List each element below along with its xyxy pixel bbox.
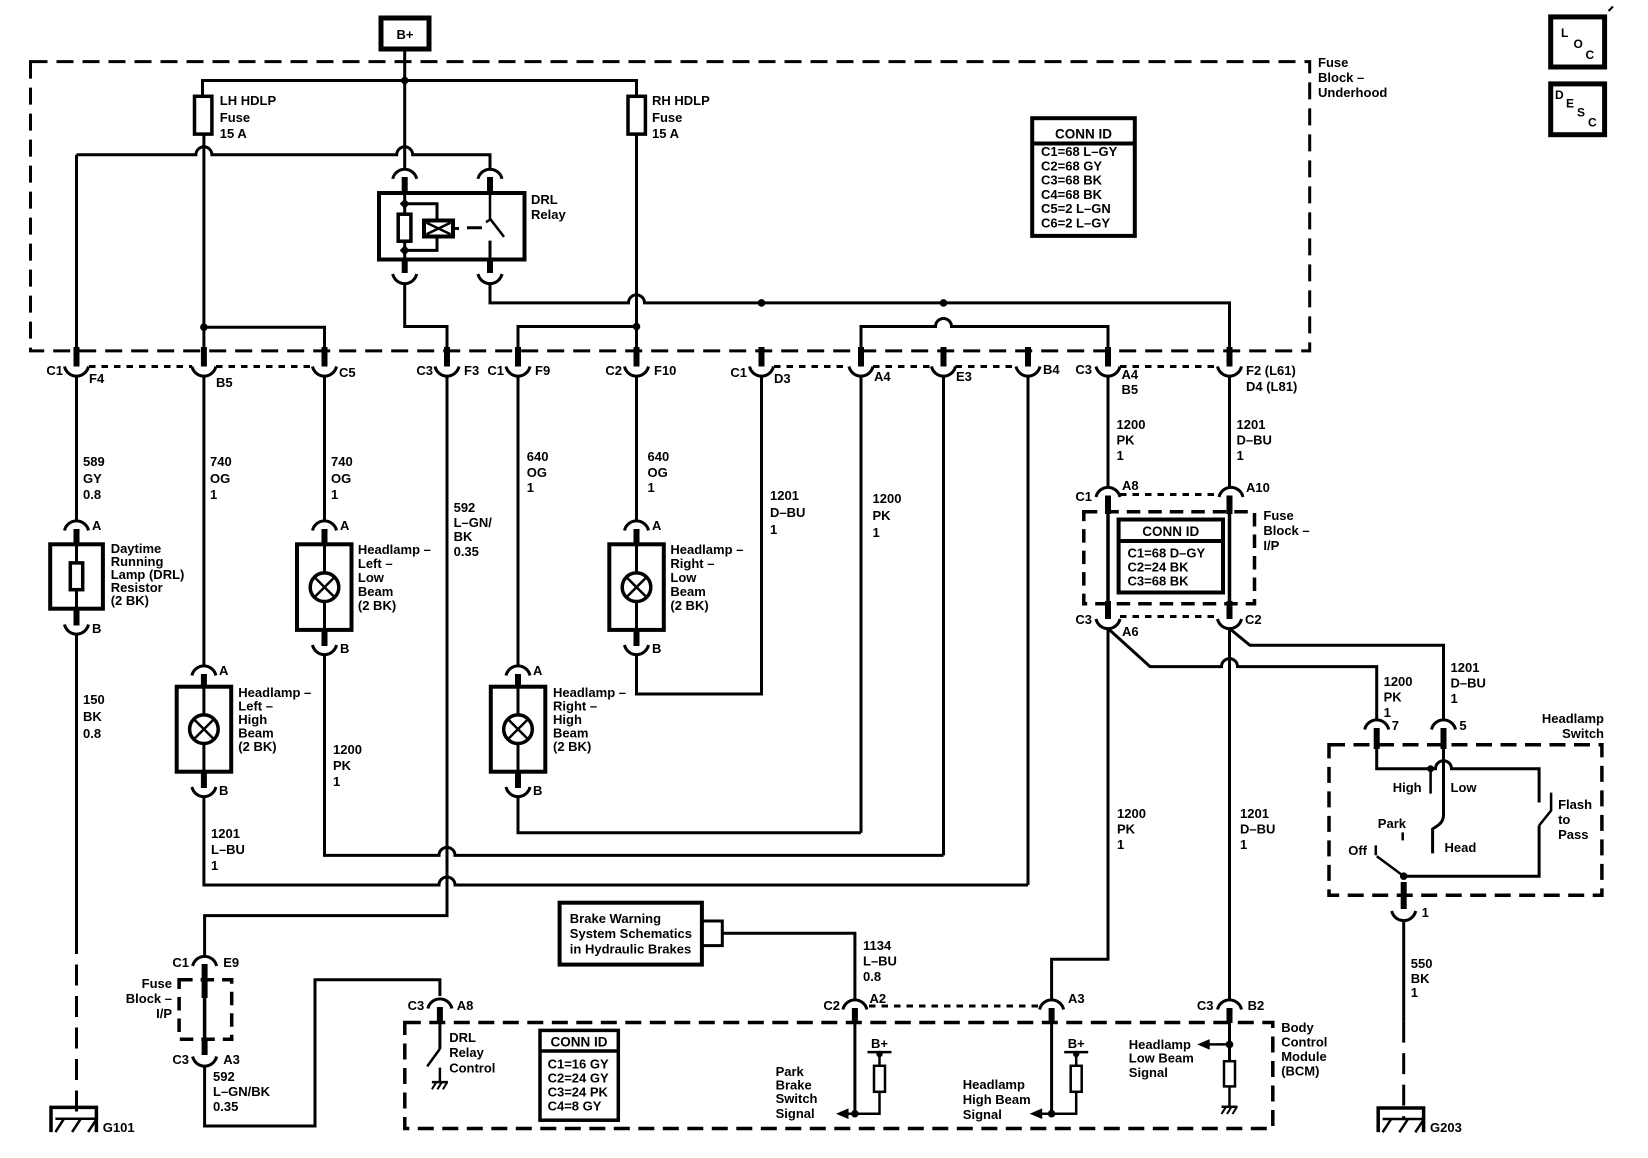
connector C2 A2 stub (852, 1008, 858, 1023)
svg-text:D3: D3 (774, 371, 791, 386)
wire label 1134 L-BU 0.8 (863, 938, 897, 984)
svg-text:1200: 1200 (1117, 806, 1146, 821)
connector row C3 dotted line group A4B5-F2 (1120, 365, 1218, 368)
wire LH fuse down to B5 (202, 134, 205, 347)
svg-text:D–BU: D–BU (1451, 676, 1486, 691)
wire 592 to DRL relay control (205, 980, 440, 1126)
node junction A3 signal (1048, 1110, 1056, 1118)
svg-text:A: A (533, 663, 543, 678)
svg-text:Low: Low (670, 570, 697, 585)
svg-text:Left –: Left – (358, 556, 393, 571)
svg-text:(BCM): (BCM) (1281, 1064, 1319, 1079)
svg-text:C5: C5 (339, 365, 356, 380)
connector switch output arc (1392, 911, 1416, 921)
svg-text:C3: C3 (1075, 612, 1092, 627)
svg-text:D–BU: D–BU (1240, 822, 1275, 837)
switch high contact (1429, 769, 1432, 794)
headlamp left low beam terminal B arc (313, 645, 337, 655)
headlamp right low beam bulb (622, 573, 651, 602)
arrow park brake switch signal (847, 1092, 880, 1114)
connector C1 F9 labels (487, 363, 550, 378)
svg-text:A6: A6 (1122, 624, 1139, 639)
svg-text:592: 592 (454, 500, 476, 515)
relay bottom stub left (402, 260, 408, 274)
svg-text:0.8: 0.8 (863, 969, 881, 984)
wire bus from LH fuse to RH fuse (203, 81, 637, 97)
svg-text:C3: C3 (408, 998, 425, 1013)
fuse block underhood dashed box (31, 62, 1310, 351)
fuse block IP right internal wires (1108, 514, 1230, 601)
headlamp right high beam terminal A arc (506, 666, 530, 676)
svg-text:B5: B5 (216, 375, 233, 390)
headlamp high beam signal label (963, 1077, 1031, 1122)
connector A3 arc (1040, 1000, 1064, 1010)
resistor pullup A2 (874, 1066, 885, 1092)
wire 640 OG to right low beam (635, 376, 638, 521)
svg-text:15 A: 15 A (652, 126, 680, 141)
connector C2 stub (1227, 601, 1233, 619)
svg-text:A8: A8 (1122, 478, 1139, 493)
wire C2 diagonal to switch pin 5 (1230, 629, 1444, 721)
DRL relay control chassis ground (432, 1082, 448, 1089)
connector B4 arc (1016, 367, 1040, 377)
svg-text:A3: A3 (223, 1052, 240, 1067)
svg-text:1201: 1201 (1240, 806, 1269, 821)
connector C3 A4 B5 arc (1096, 367, 1120, 377)
wire label 1200 PK 1 at A6 drop (1117, 806, 1146, 852)
svg-text:E: E (1566, 97, 1574, 111)
connector A4 arc (849, 367, 873, 377)
svg-text:0.8: 0.8 (83, 487, 101, 502)
svg-text:B: B (219, 783, 228, 798)
headlamp right low beam terminal B stub (634, 630, 640, 646)
headlamp left high beam terminal B stub (201, 772, 207, 788)
resistor pullup A3 (1071, 1066, 1082, 1092)
wire relay switch output to F2 D4 with hop over RH fuse wire (490, 284, 1230, 348)
DRL relay control label (449, 1030, 495, 1076)
component Headlamp Left Low Beam box (297, 544, 352, 630)
connector C1 F4 stub (74, 347, 80, 367)
svg-text:L–BU: L–BU (211, 842, 245, 857)
svg-text:C3=68 BK: C3=68 BK (1041, 173, 1103, 188)
svg-text:Headlamp –: Headlamp – (358, 542, 431, 557)
wire label 592 L-GN/BK 0.35 upper (454, 500, 493, 559)
svg-text:Fuse: Fuse (1318, 55, 1348, 70)
brake warning reference box (560, 903, 702, 965)
svg-text:BK: BK (454, 529, 473, 544)
relay coil loop bottom diamond (400, 245, 410, 255)
svg-text:C1: C1 (172, 955, 189, 970)
svg-text:B: B (652, 641, 661, 656)
svg-text:592: 592 (213, 1069, 235, 1084)
connector C1 F9 stub (515, 347, 521, 367)
wire 740 OG to left high beam (202, 376, 205, 666)
component Headlamp Right High Beam box (491, 687, 546, 772)
svg-text:C3: C3 (1075, 362, 1092, 377)
headlamp right high beam internal wires (517, 687, 520, 772)
svg-text:PK: PK (1384, 690, 1403, 705)
svg-text:1: 1 (648, 480, 655, 495)
svg-text:(2 BK): (2 BK) (553, 739, 591, 754)
svg-text:7: 7 (1392, 718, 1399, 733)
svg-text:Signal: Signal (963, 1107, 1002, 1122)
svg-text:Headlamp –: Headlamp – (670, 542, 743, 557)
battery feed B+ box (381, 18, 429, 49)
wire label 740 OG 1 right (331, 454, 353, 502)
component Headlamp Right Low Beam box (609, 544, 664, 630)
svg-text:L–GN/: L–GN/ (454, 515, 493, 530)
headlamp left low beam terminal B stub (322, 630, 328, 646)
svg-text:C6=2 L–GY: C6=2 L–GY (1041, 216, 1110, 231)
relay DRL top pin stub left (402, 177, 408, 194)
svg-text:D4 (L81): D4 (L81) (1246, 379, 1297, 394)
svg-text:DRL: DRL (531, 192, 558, 207)
connector A10 arc (1219, 487, 1243, 497)
svg-text:C1=68 D–GY: C1=68 D–GY (1128, 546, 1206, 561)
svg-text:D: D (1555, 88, 1564, 102)
B2 chassis ground (1222, 1107, 1238, 1114)
svg-text:1200: 1200 (333, 742, 362, 757)
connector E3 arc (932, 367, 956, 377)
connector C2 F10 arc (625, 367, 649, 377)
connector C3 A8 labels DRL relay control (408, 998, 474, 1013)
svg-text:640: 640 (527, 449, 549, 464)
svg-text:Headlamp: Headlamp (963, 1077, 1025, 1092)
connector C3 A8 stub DRL relay control (437, 1007, 443, 1023)
svg-text:5: 5 (1459, 718, 1466, 733)
svg-text:CONN ID: CONN ID (551, 1035, 608, 1050)
relay coil box with X (424, 221, 453, 237)
connector C3 B2 stub (1227, 1008, 1233, 1023)
headlamp switch label (1542, 711, 1604, 741)
connector C3 A3 stub (202, 1039, 208, 1055)
fuse block IP left label (126, 976, 173, 1021)
DRL resistor terminal A stub (74, 529, 80, 546)
svg-text:Head: Head (1445, 840, 1477, 855)
svg-text:to: to (1558, 812, 1570, 827)
svg-text:C3=24 PK: C3=24 PK (548, 1085, 609, 1100)
svg-text:DRL: DRL (449, 1030, 476, 1045)
node junction D3 feed (758, 299, 766, 307)
wire headlamp low beam signal B2 internal (1228, 1023, 1231, 1061)
connector C3 B2 arc (1218, 1000, 1242, 1010)
node junction B2 signal (1226, 1041, 1234, 1049)
connector C3 A8 arc DRL relay control (428, 999, 452, 1009)
svg-text:Relay: Relay (449, 1045, 484, 1060)
connector C3 B2 labels (1197, 998, 1264, 1013)
connector C5 stub (322, 347, 328, 367)
svg-text:Control: Control (449, 1061, 495, 1076)
svg-text:1: 1 (1451, 691, 1458, 706)
svg-text:C1: C1 (46, 363, 63, 378)
svg-text:OG: OG (210, 471, 230, 486)
DRL resistor internal wires (75, 544, 78, 608)
switch low wire pin5 to head contact (1433, 749, 1444, 853)
svg-text:C3: C3 (416, 363, 433, 378)
svg-text:1: 1 (333, 774, 340, 789)
resistor B2 to ground (1224, 1061, 1235, 1086)
connector C2 F10 labels (605, 363, 676, 378)
svg-text:1: 1 (1117, 837, 1124, 852)
relay bottom stub right (487, 260, 493, 274)
svg-text:1: 1 (873, 525, 880, 540)
switch off contact (1375, 845, 1378, 855)
svg-text:Fuse: Fuse (220, 110, 250, 125)
wire A6 diagonal to switch pin 7 with hop over C2 drop (1108, 629, 1377, 721)
switch wire pin7 to high and flash with hop over low wire (1377, 749, 1539, 803)
svg-text:C4=68 BK: C4=68 BK (1041, 187, 1103, 202)
svg-text:1: 1 (210, 487, 217, 502)
headlamp switch dashed box (1329, 745, 1602, 895)
svg-text:A4: A4 (874, 369, 891, 384)
svg-text:Low: Low (1451, 780, 1478, 795)
svg-text:L: L (1561, 26, 1568, 40)
wire label 1200 PK 1 at switch 7 (1384, 674, 1413, 720)
svg-text:(2 BK): (2 BK) (358, 598, 396, 613)
relay coil resistor element (398, 214, 411, 241)
arrow headlamp low beam signal (1209, 1043, 1230, 1046)
wire label 150 BK 0.8 (83, 692, 105, 741)
svg-text:A4: A4 (1122, 367, 1139, 382)
svg-text:F4: F4 (89, 371, 105, 386)
svg-text:(2 BK): (2 BK) (111, 593, 149, 608)
DRL relay control switch wire (438, 1023, 441, 1049)
wire 1201 D-BU D3 drop to right low B (637, 376, 762, 694)
brake warning box connector tab (702, 921, 722, 946)
headlamp left low beam terminal A stub (322, 529, 328, 546)
svg-text:OG: OG (648, 465, 668, 480)
svg-text:C: C (1586, 48, 1595, 62)
DRL resistor terminal B arc (65, 625, 89, 635)
fuse LH HDLP 15A (195, 93, 277, 141)
svg-text:B: B (92, 621, 101, 636)
arrow headlamp high beam signal (1041, 1092, 1076, 1114)
wire E3 drop (942, 376, 945, 855)
svg-text:I/P: I/P (1263, 538, 1279, 553)
wire label 550 BK 1 (1411, 956, 1433, 1000)
svg-text:C4=8 GY: C4=8 GY (548, 1099, 602, 1114)
svg-text:Fuse: Fuse (142, 976, 172, 991)
connector C2 arc (1218, 619, 1242, 629)
svg-text:E3: E3 (956, 369, 972, 384)
svg-text:740: 740 (210, 454, 232, 469)
svg-text:D–BU: D–BU (770, 505, 805, 520)
connector B5 arc (192, 367, 216, 377)
DRL resistor terminal B stub (74, 609, 80, 626)
wire 150 BK dashed part to G101 (75, 933, 78, 1119)
wire 1200 PK A4B5 to A8 (1107, 376, 1110, 488)
switch flash to pass label (1558, 797, 1592, 842)
connector row dotted line A2-A3 (869, 1005, 1038, 1008)
wire F9 branch (518, 327, 637, 348)
svg-text:Signal: Signal (776, 1106, 815, 1121)
svg-text:E9: E9 (223, 955, 239, 970)
svg-text:CONN ID: CONN ID (1055, 127, 1112, 142)
node junction F9 F10 (633, 323, 641, 331)
svg-text:Fuse: Fuse (652, 110, 682, 125)
wire label 640 OG 1 left (527, 449, 549, 495)
connector C1 A8 stub (1105, 496, 1111, 515)
svg-text:A10: A10 (1246, 480, 1270, 495)
wire B2 resistor to ground (1228, 1086, 1231, 1106)
headlamp right high beam terminal B stub (515, 772, 521, 788)
connector row C1 dotted line group D3-A4-E3-B4 (774, 365, 1016, 368)
connector row dotted line A6-C2 (1120, 615, 1218, 618)
connector C3 A4 B5 stub (1105, 347, 1111, 367)
connector C5 arc (313, 367, 337, 377)
svg-text:C1: C1 (1075, 489, 1092, 504)
B+ feed A2 (868, 1036, 892, 1066)
svg-text:High: High (1393, 780, 1422, 795)
svg-text:C1=16 GY: C1=16 GY (548, 1057, 609, 1072)
headlamp left high beam terminal B arc (192, 787, 216, 797)
connector C3 F3 labels (416, 363, 479, 378)
connector C3 A3 labels (172, 1052, 239, 1067)
svg-text:PK: PK (1117, 433, 1136, 448)
svg-text:High Beam: High Beam (963, 1092, 1031, 1107)
headlamp low beam signal label (1129, 1037, 1194, 1080)
park brake switch signal label (776, 1064, 818, 1121)
wire 1200 PK left low B to E3 with hop over 592 wire (325, 655, 944, 856)
switch wiper blade (1377, 856, 1404, 876)
svg-text:C1: C1 (487, 363, 504, 378)
connector switch output stub (1401, 882, 1407, 909)
svg-text:B+: B+ (871, 1036, 888, 1051)
svg-text:L–GN/BK: L–GN/BK (213, 1084, 271, 1099)
svg-text:PK: PK (333, 758, 352, 773)
connector C3 A3 arc (193, 1057, 217, 1067)
svg-text:0.35: 0.35 (454, 544, 479, 559)
svg-text:1: 1 (770, 522, 777, 537)
connector C1 F4 arc (65, 367, 89, 377)
svg-text:L–BU: L–BU (863, 954, 897, 969)
wire label 640 OG 1 right (648, 449, 670, 495)
wire B4 drop (1027, 376, 1030, 885)
svg-text:A3: A3 (1068, 991, 1085, 1006)
connector C1 E9 labels (172, 955, 239, 970)
DRL relay control switch blade (427, 1049, 440, 1067)
connector A10 stub (1227, 496, 1233, 515)
svg-text:15 A: 15 A (220, 126, 248, 141)
node junction B5 C5 (200, 323, 208, 331)
svg-text:Low: Low (358, 570, 385, 585)
connector C1 E9 arc (193, 956, 217, 966)
body control module BCM dashed box (405, 1023, 1273, 1129)
headlamp right low beam terminal A stub (634, 529, 640, 546)
wire label 1201 D-BU 1 at A10 (1237, 417, 1272, 463)
headlamp right low beam internal wires (635, 544, 638, 630)
headlamp right low beam terminal B arc (625, 645, 649, 655)
svg-text:150: 150 (83, 692, 105, 707)
wire 1200 PK A4 drop (860, 376, 863, 833)
svg-text:1: 1 (1240, 837, 1247, 852)
connector C1 F9 arc (506, 367, 530, 377)
svg-text:1201: 1201 (1237, 417, 1266, 432)
wire C5 branch (204, 327, 325, 347)
ground G203 (1378, 1108, 1462, 1135)
svg-text:O: O (1574, 37, 1583, 51)
svg-text:Low Beam: Low Beam (1129, 1051, 1194, 1066)
headlamp right low beam label (670, 542, 743, 613)
svg-text:1201: 1201 (211, 826, 240, 841)
body control module label (1281, 1020, 1327, 1079)
connector C2 A2 labels (823, 991, 886, 1013)
wire horizontal to relay switch with hops over LH fuse wire and B+ wire (77, 147, 491, 170)
wire 1201 D-BU C2 down to B2 (1228, 629, 1231, 1001)
connector C3 F3 arc (435, 367, 459, 377)
wire 589 GY to DRL resistor (75, 376, 78, 521)
switch park contact (1401, 832, 1404, 840)
switch flash to pass lower wire (1404, 826, 1539, 877)
relay coil wire left internal (403, 193, 406, 260)
svg-text:C2=68 GY: C2=68 GY (1041, 158, 1102, 173)
connector row dotted line A8-A10 (1120, 493, 1218, 496)
svg-text:OG: OG (331, 471, 351, 486)
svg-text:in Hydraulic Brakes: in Hydraulic Brakes (570, 942, 691, 957)
svg-text:B+: B+ (1068, 1036, 1085, 1051)
connector C1 D3 arc (750, 367, 774, 377)
relay bottom arc right (478, 274, 502, 284)
svg-text:C5=2 L–GN: C5=2 L–GN (1041, 201, 1111, 216)
relay DRL top pin arc left (393, 169, 417, 179)
headlamp right low beam terminal A arc (625, 521, 649, 531)
component Daytime Running Lamp DRL Resistor box (50, 544, 103, 608)
headlamp left low beam bulb (310, 573, 339, 602)
svg-text:(2 BK): (2 BK) (238, 739, 276, 754)
wire label 1201 D-BU 1 at switch 5 (1451, 660, 1486, 706)
svg-text:Block –: Block – (1263, 523, 1309, 538)
svg-text:1134: 1134 (863, 938, 892, 953)
LOC legend box (1551, 17, 1605, 67)
switch flash to pass blade (1539, 793, 1551, 826)
headlamp right high beam bulb (504, 715, 533, 744)
svg-text:F2 (L61): F2 (L61) (1246, 363, 1296, 378)
connector C2 A2 arc (843, 1000, 867, 1010)
svg-text:Block –: Block – (126, 991, 172, 1006)
svg-text:OG: OG (527, 465, 547, 480)
DESC legend box (1551, 84, 1605, 135)
svg-text:Beam: Beam (670, 584, 705, 599)
relay coil loop wiring (405, 204, 437, 251)
wire RH fuse down to F10 (635, 134, 638, 347)
connector F2 D4 stub (1227, 347, 1233, 367)
svg-text:D–BU: D–BU (1237, 433, 1272, 448)
wire 1201 D-BU F2 to A10 (1228, 376, 1231, 488)
wire 1200 PK right high B to A4 (518, 797, 861, 833)
svg-text:Control: Control (1281, 1035, 1327, 1050)
connector F2 D4 labels (1246, 363, 1297, 394)
svg-text:BK: BK (1411, 971, 1430, 986)
svg-text:F3: F3 (464, 363, 479, 378)
wire label 592 L-GN/BK 0.35 lower (213, 1069, 271, 1114)
svg-text:F9: F9 (535, 363, 550, 378)
svg-text:C2: C2 (823, 998, 840, 1013)
connector C3 A6 stub (1105, 601, 1111, 619)
svg-text:C3: C3 (1197, 998, 1214, 1013)
wire relay coil output to F3 connector (405, 284, 447, 348)
svg-text:740: 740 (331, 454, 353, 469)
svg-text:1: 1 (331, 487, 338, 502)
svg-text:1: 1 (211, 858, 218, 873)
svg-text:C2: C2 (605, 363, 622, 378)
relay switch lower contact (489, 241, 492, 260)
wire A4 to C3 A4B5 jog with hop over E3 wire (861, 319, 1108, 348)
fuse block IP left dashed box (179, 980, 232, 1040)
wire 1134 L-BU from brake warning to A2 (722, 933, 855, 1001)
relay U1 DRL Relay box (379, 193, 525, 260)
wire 592 L-GN/BK F3 drop (205, 376, 447, 957)
headlamp left high beam internal wires (202, 687, 205, 772)
